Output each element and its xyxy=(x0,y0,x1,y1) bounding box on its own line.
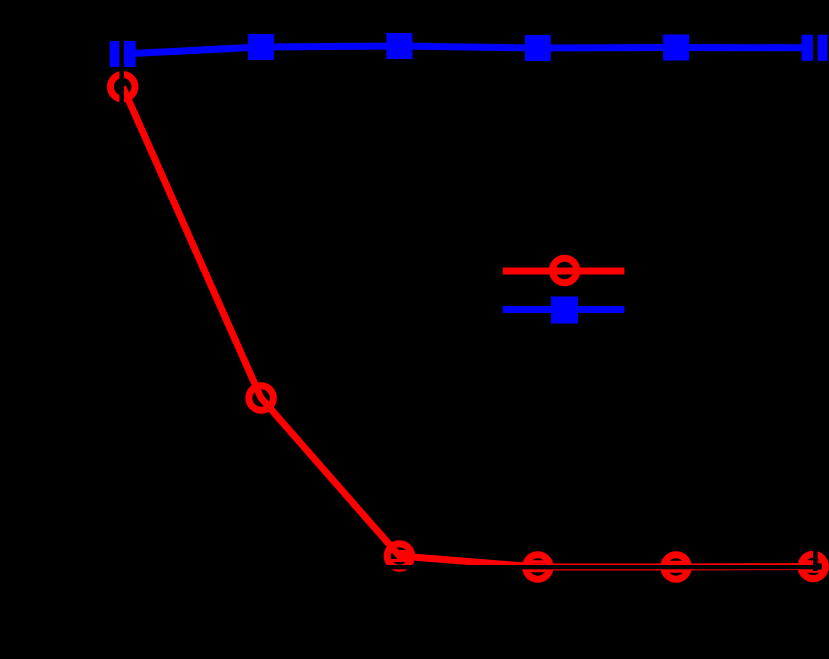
blue marker square 5 xyxy=(663,35,689,61)
blue series line xyxy=(123,46,815,54)
blue marker square 2 xyxy=(248,34,274,60)
bottom axis spine (black, over red line) xyxy=(119,565,817,569)
blue marker square 3 xyxy=(386,33,412,59)
legend red sample line xyxy=(503,268,625,275)
blue marker square 4 xyxy=(525,35,551,61)
red errorbar caps P4 xyxy=(529,560,547,563)
red errorbar caps P6 xyxy=(804,560,822,563)
red marker circle 3 xyxy=(387,544,412,569)
red errorbar caps P5 xyxy=(667,561,685,564)
right axis spine (black, over markers) xyxy=(813,20,818,571)
legend red marker circle xyxy=(552,258,577,283)
blue marker square 1 xyxy=(110,41,136,67)
red marker circle 5 xyxy=(664,555,689,580)
red errorbar caps P3 xyxy=(390,550,408,553)
red marker circle 6 xyxy=(801,554,826,579)
red marker circle 2 xyxy=(249,386,274,411)
legend blue sample line xyxy=(503,306,625,313)
legend blue marker square xyxy=(551,297,578,324)
red marker circle 4 xyxy=(526,555,551,580)
red series line xyxy=(123,87,815,567)
blue marker square 6 xyxy=(802,35,828,61)
red marker circle 1 xyxy=(110,75,135,100)
left axis spine (black, over markers) xyxy=(119,20,124,571)
